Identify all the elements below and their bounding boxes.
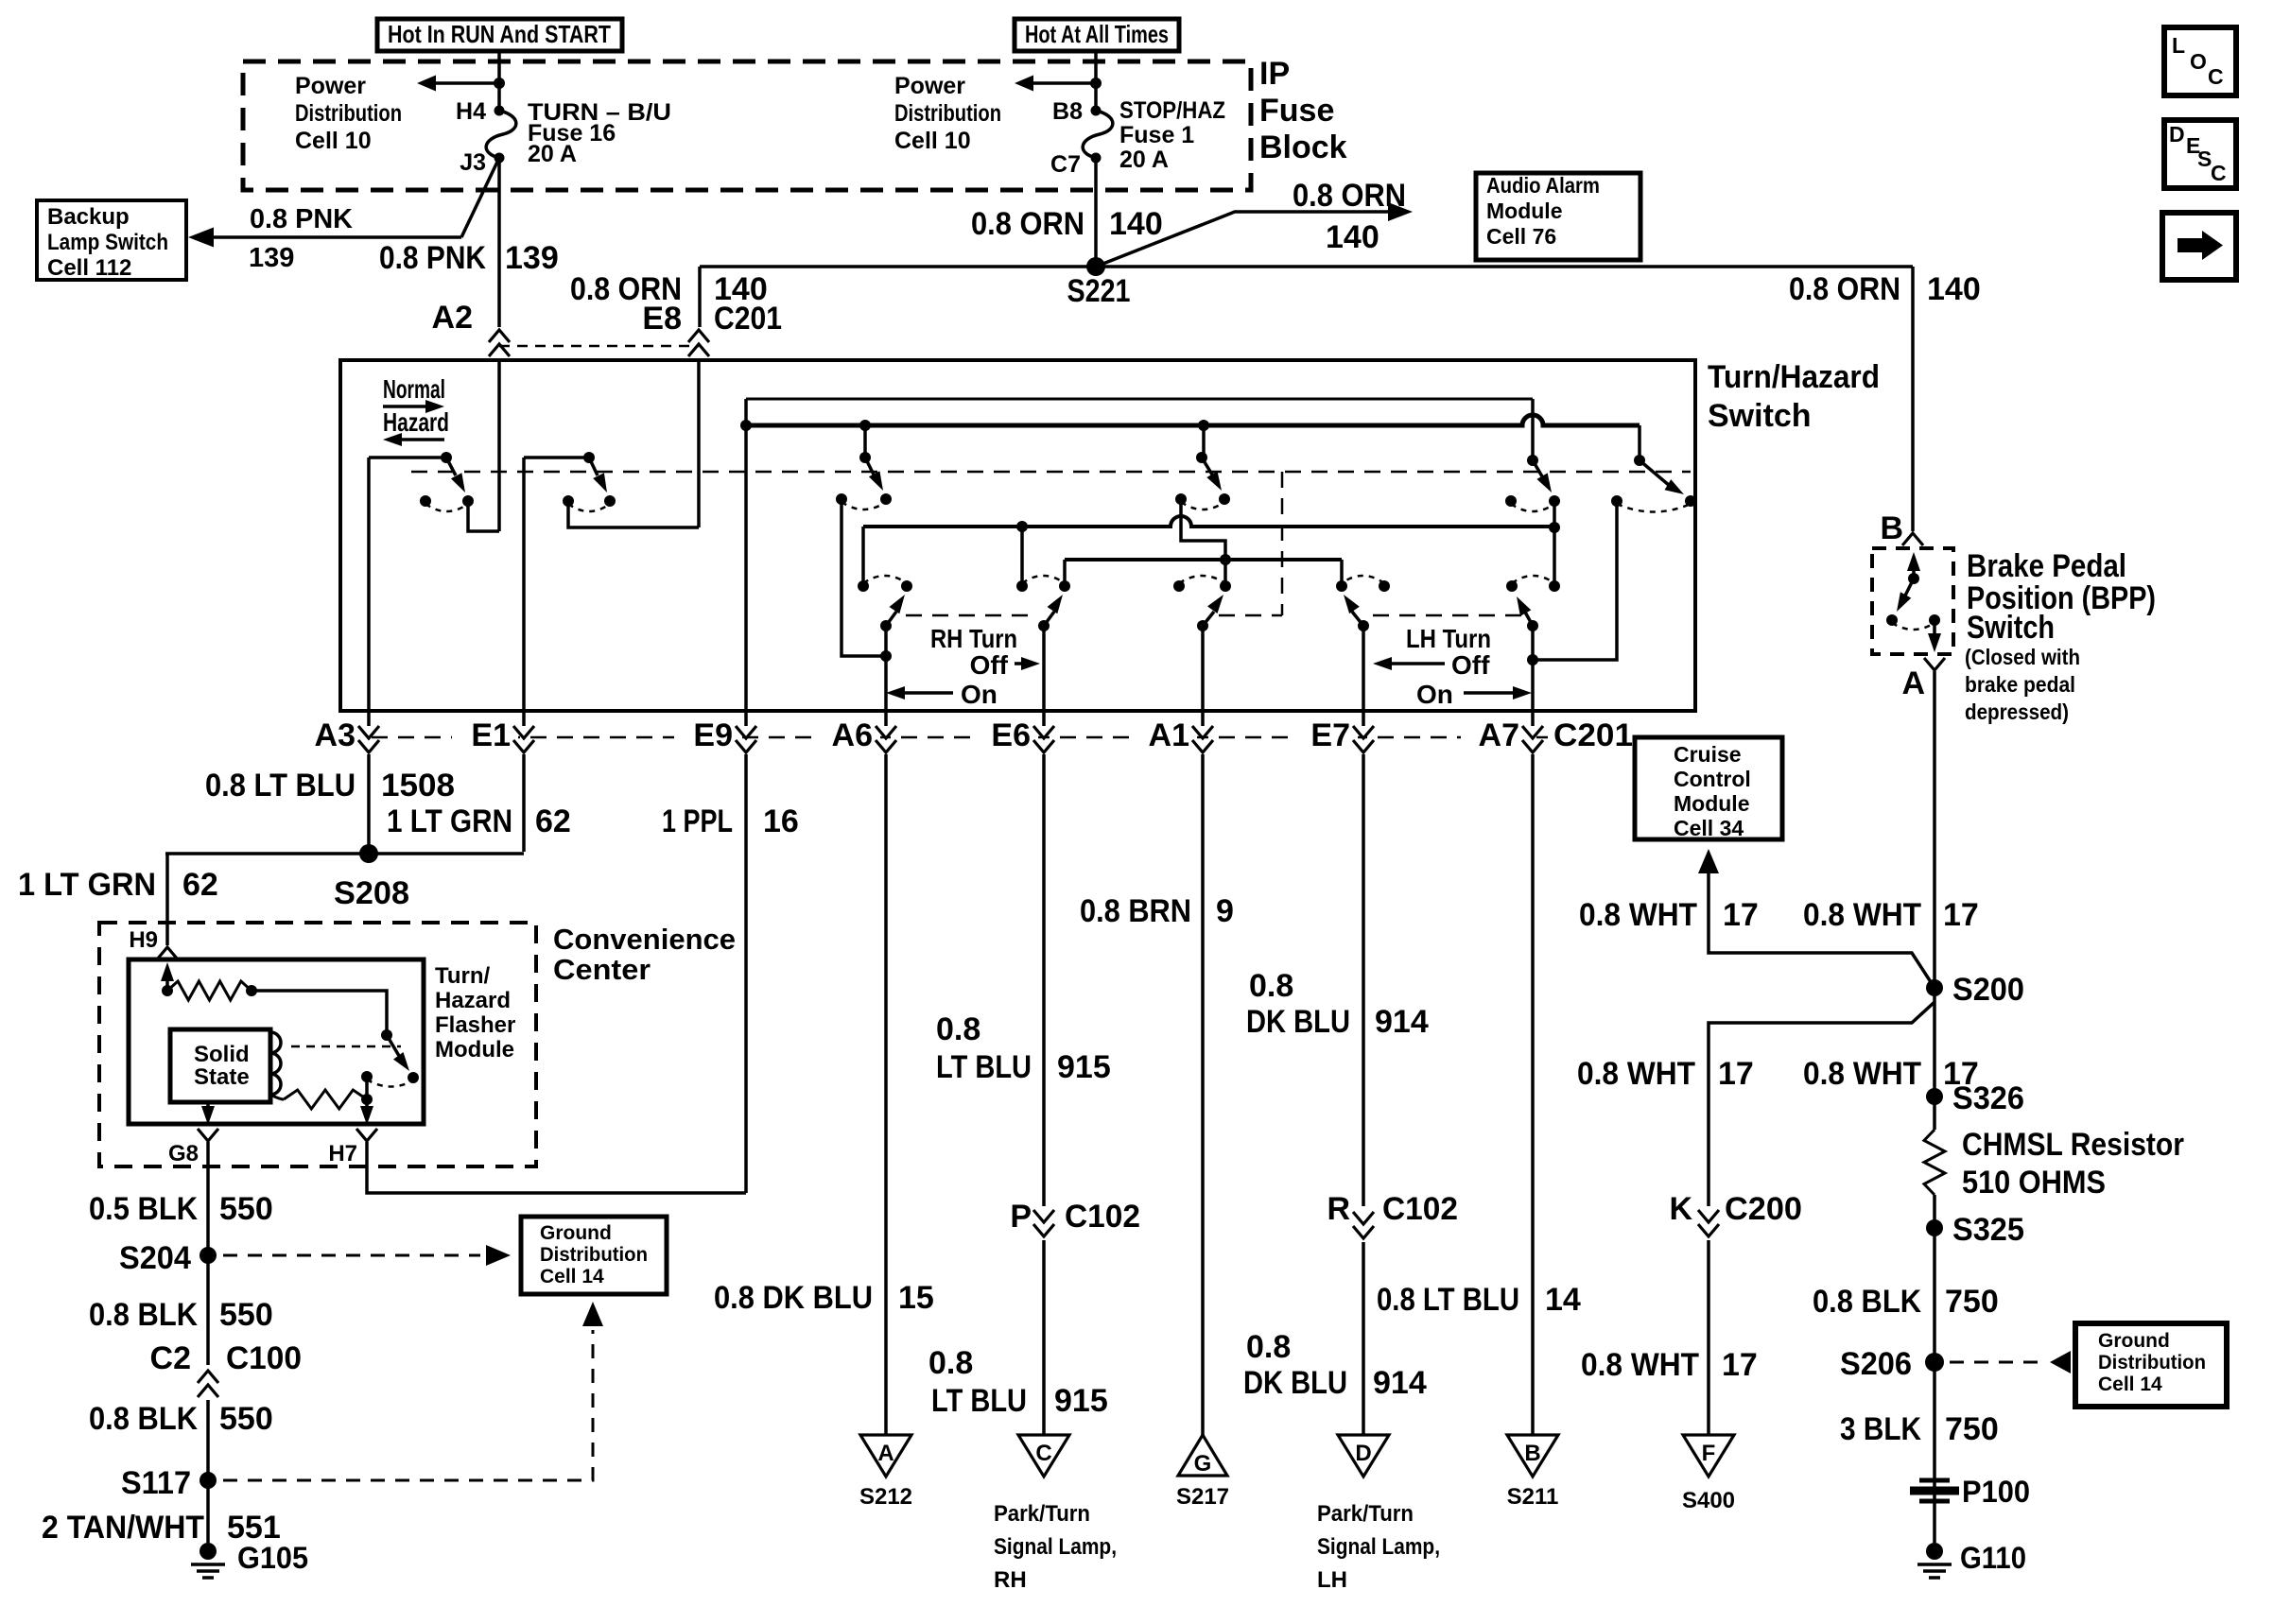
svg-text:P: P (1010, 1199, 1032, 1235)
svg-text:Brake Pedal: Brake Pedal (1967, 548, 2126, 584)
svg-text:550: 550 (219, 1401, 273, 1437)
feed stub to U3 pivot (863, 425, 867, 458)
svg-text:0.8 ORN: 0.8 ORN (1293, 178, 1406, 214)
wire K to S400 triangle (1707, 1240, 1710, 1435)
connector triangle F (S400) (1683, 1435, 1734, 1477)
svg-text:S117: S117 (121, 1465, 191, 1501)
svg-text:F: F (1702, 1441, 1716, 1466)
svg-text:LT BLU: LT BLU (931, 1383, 1027, 1419)
wire 0.8 ORN 140 from C7 to S221 (1094, 158, 1098, 267)
wire A6 riser inside box (884, 656, 888, 711)
svg-text:Switch: Switch (1967, 610, 2055, 646)
svg-text:State: State (194, 1064, 250, 1090)
svg-text:S325: S325 (1952, 1212, 2024, 1248)
svg-text:Signal Lamp,: Signal Lamp, (994, 1534, 1117, 1560)
svg-text:S204: S204 (119, 1240, 191, 1276)
svg-text:Turn/Hazard: Turn/Hazard (1708, 359, 1880, 395)
switch contact U5 (bus1 pivot) (1527, 455, 1538, 466)
bus2 corner down to U6 pivot (1638, 425, 1641, 460)
svg-text:0.8 PNK: 0.8 PNK (250, 204, 353, 234)
switch contact L5 (A7, arm open) (1527, 620, 1538, 631)
IP Fuse Block dashed box (243, 61, 1251, 190)
splice S117 dot (200, 1472, 217, 1489)
connector C201 dashed line below switch (345, 736, 1565, 739)
svg-text:14: 14 (1545, 1282, 1581, 1318)
svg-text:Flasher: Flasher (435, 1012, 515, 1038)
LOC reference box (2164, 27, 2236, 95)
wire E9 riser inside box (744, 399, 748, 711)
svg-text:139: 139 (249, 243, 294, 273)
connector triangle G (S217) pointing up (1178, 1435, 1227, 1476)
svg-text:Module: Module (1674, 791, 1750, 816)
svg-text:A: A (877, 1441, 894, 1466)
svg-text:0.8 DK BLU: 0.8 DK BLU (714, 1280, 873, 1316)
svg-text:17: 17 (1718, 1056, 1754, 1092)
junction dot right of R1 (246, 985, 257, 996)
svg-text:915: 915 (1054, 1383, 1108, 1419)
Solid State box (170, 1029, 270, 1102)
svg-text:1 LT GRN: 1 LT GRN (18, 867, 156, 903)
svg-text:Switch: Switch (1708, 398, 1812, 434)
svg-text:Distribution: Distribution (2098, 1352, 2206, 1373)
svg-text:On: On (961, 680, 998, 709)
svg-text:B8: B8 (1052, 98, 1083, 125)
wire S400 branch from S200 (1709, 1002, 1935, 1206)
connector chevrons and pin label E1 (452, 720, 518, 758)
flasher junction dot at resistor R1 (162, 985, 173, 996)
svg-text:Signal Lamp,: Signal Lamp, (1317, 1534, 1440, 1560)
feed stub to U4 pivot (1202, 425, 1206, 458)
svg-text:1 PPL: 1 PPL (662, 803, 733, 839)
pass-through grommet P100 (1919, 1478, 1950, 1483)
wire below CHMSL resistor (1933, 1195, 1936, 1543)
connector chevron A (1924, 658, 1945, 670)
svg-text:20 A: 20 A (1119, 147, 1169, 173)
svg-text:Cell 10: Cell 10 (894, 128, 971, 154)
svg-text:Center: Center (553, 953, 651, 986)
wire S208 horizontal (165, 852, 524, 855)
svg-text:LT BLU: LT BLU (936, 1049, 1032, 1085)
wire E7 drop lower (1362, 1242, 1365, 1435)
wire 0.8 ORN branch to Audio Alarm Module (1096, 212, 1397, 267)
svg-text:750: 750 (1945, 1284, 1999, 1320)
flasher relay coil bumps (270, 1032, 281, 1095)
bus4 right corner to L4 contact (1340, 560, 1344, 586)
svg-text:Distribution: Distribution (540, 1244, 648, 1266)
svg-text:Cell 10: Cell 10 (295, 128, 372, 154)
svg-text:depressed): depressed) (1965, 700, 2069, 724)
svg-text:C: C (1035, 1441, 1051, 1466)
wire 0.8 PNK diagonal from J3 (461, 158, 499, 237)
svg-text:Hot At All Times: Hot At All Times (1025, 20, 1169, 48)
svg-text:G8: G8 (168, 1141, 199, 1166)
wire U1 contact to A2 link (468, 501, 499, 531)
svg-text:E8: E8 (642, 301, 682, 337)
Turn/Hazard Flasher Module box (129, 959, 424, 1124)
svg-text:LH: LH (1317, 1567, 1347, 1593)
svg-text:C: C (2208, 64, 2224, 89)
svg-text:Audio Alarm: Audio Alarm (1486, 173, 1600, 198)
svg-text:0.8: 0.8 (1249, 968, 1293, 1004)
svg-text:A6: A6 (832, 717, 873, 753)
svg-text:Off: Off (1451, 650, 1490, 680)
svg-text:0.8 ORN: 0.8 ORN (971, 206, 1084, 242)
svg-text:H4: H4 (456, 98, 486, 125)
svg-text:Ground: Ground (540, 1222, 612, 1244)
wire below C100 (206, 1400, 210, 1543)
svg-text:139: 139 (505, 240, 559, 276)
fuse 1 element (squiggle) (1083, 111, 1113, 158)
svg-text:C2: C2 (150, 1340, 191, 1376)
Turn/Hazard Switch box (340, 360, 1695, 711)
svg-text:B: B (1524, 1441, 1540, 1466)
svg-text:0.8 WHT: 0.8 WHT (1581, 1347, 1699, 1383)
svg-text:CHMSL Resistor: CHMSL Resistor (1962, 1127, 2184, 1163)
wire G8 ground column (206, 1142, 210, 1365)
svg-text:Hot In RUN And START: Hot In RUN And START (388, 20, 611, 48)
svg-text:E1: E1 (471, 717, 511, 753)
svg-text:20 A: 20 A (528, 141, 577, 167)
svg-text:Cell 14: Cell 14 (2098, 1373, 2162, 1395)
Audio Alarm Module box (1476, 173, 1640, 260)
connector triangle A (S212) (860, 1435, 911, 1477)
svg-text:IP: IP (1259, 56, 1290, 92)
svg-text:Solid: Solid (194, 1042, 250, 1067)
svg-text:A2: A2 (432, 300, 473, 336)
dashed connector line C201 between A2 and E8 (499, 345, 699, 348)
wire E1 down and over to S208 (522, 760, 526, 852)
connector triangle B (S211) (1507, 1435, 1558, 1477)
connector chevrons and pin label E7 (1292, 720, 1358, 758)
flasher dashed arc (367, 1080, 413, 1087)
arrow to Power Distribution Cell 10 (right) (1029, 81, 1096, 85)
page-continue arrow box (2162, 213, 2236, 280)
bus4 left corner to L2 contact (1063, 560, 1067, 586)
svg-text:C102: C102 (1065, 1199, 1140, 1235)
bus3 corner down to L1 left dot (861, 527, 865, 586)
wire H7 down and over to E9 drop (367, 1142, 746, 1193)
svg-text:Power: Power (894, 73, 965, 99)
svg-text:A: A (1901, 665, 1925, 701)
svg-text:1508: 1508 (381, 768, 455, 803)
splice S221 bus wire (700, 265, 1913, 268)
svg-text:H9: H9 (129, 927, 158, 953)
wire A1 riser inside box (1201, 626, 1205, 711)
wire U2 pivot to E1 riser (524, 456, 589, 459)
wire 0.8 ORN 140 right riser to BPP switch (1911, 267, 1915, 531)
upper mechanical dashed line (411, 471, 1691, 474)
svg-text:Distribution: Distribution (295, 100, 402, 127)
svg-text:G110: G110 (1960, 1541, 2026, 1575)
svg-text:S326: S326 (1952, 1080, 2024, 1116)
svg-text:915: 915 (1057, 1049, 1111, 1085)
svg-text:L: L (2172, 33, 2185, 58)
Ground Distribution Cell 14 box (left) (521, 1217, 667, 1294)
ground G105 (200, 1543, 217, 1560)
svg-text:Cell 14: Cell 14 (540, 1266, 604, 1287)
coil mechanical dashed link (291, 1045, 401, 1048)
wire A6 drop (884, 760, 888, 1435)
svg-text:S217: S217 (1176, 1484, 1229, 1510)
connector chevrons and pin label A6 (814, 720, 880, 758)
wire L5 pivot down to A7 junction (1531, 626, 1535, 660)
wire E1 riser inside box (522, 458, 526, 711)
wire U5 contact chain down to lower row (1553, 501, 1556, 586)
wire A2 into switch box (497, 359, 501, 531)
DESC reference box (2164, 120, 2236, 188)
coil to R2 link (270, 1095, 284, 1099)
wire E6 riser inside box (1042, 626, 1046, 711)
wire A3 down to S208 (367, 760, 371, 854)
svg-text:140: 140 (1109, 206, 1163, 242)
svg-text:0.8 BLK: 0.8 BLK (89, 1297, 198, 1333)
flasher input arrow up inside module (165, 974, 169, 991)
wire A1 drop (1201, 760, 1205, 1435)
wire E8 into switch box down to U2 contact link (697, 359, 701, 527)
svg-text:Module: Module (1486, 199, 1563, 223)
svg-text:brake pedal: brake pedal (1965, 672, 2075, 697)
svg-text:S200: S200 (1952, 972, 2024, 1008)
svg-text:J3: J3 (460, 149, 486, 176)
wire U4 left contact jog to bus4 (1181, 499, 1225, 586)
wire U2 left contact to E8 link (568, 501, 699, 527)
svg-text:914: 914 (1373, 1365, 1427, 1401)
dashed reference to Ground Distribution with arrow (223, 1254, 480, 1257)
svg-text:Module: Module (435, 1037, 514, 1063)
svg-text:Park/Turn: Park/Turn (1317, 1501, 1414, 1527)
svg-text:0.8 LT BLU: 0.8 LT BLU (1377, 1282, 1519, 1318)
BPP dashed arc (1892, 623, 1935, 630)
bus wire 2 (feed bus from E9) with hop over U5 riser (746, 415, 1640, 425)
svg-text:A1: A1 (1149, 717, 1189, 753)
wire from Hot At All Times box to fuse 1 (1094, 51, 1098, 111)
junction dot at power distribution tap (494, 78, 505, 89)
svg-text:Off: Off (970, 650, 1009, 680)
BPP arm pivot dot and up arrow (1912, 563, 1916, 579)
svg-text:Convenience: Convenience (553, 923, 736, 956)
Convenience Center dashed box (99, 923, 536, 1166)
bus3 stub to L2 left dot (1020, 527, 1024, 586)
svg-text:Backup: Backup (47, 204, 130, 230)
wire E8 riser from S221 bus (698, 267, 702, 327)
svg-text:550: 550 (219, 1297, 273, 1333)
switch contact U3 (A6 branch) (859, 452, 871, 463)
wire U3 left contact down to A6 junction (842, 499, 886, 656)
splice S206 dot (1925, 1353, 1944, 1372)
splice S326 dot (1926, 1088, 1943, 1105)
svg-text:16: 16 (763, 803, 799, 839)
flasher contact arm with arrow (387, 1035, 402, 1061)
svg-text:0.8 BLK: 0.8 BLK (1813, 1284, 1921, 1320)
connector chevron H9 (157, 947, 178, 959)
wire A7 drop (1531, 760, 1535, 1435)
svg-text:STOP/HAZ: STOP/HAZ (1119, 97, 1225, 124)
splice S325 dot (1926, 1219, 1943, 1236)
header box: Hot In RUN And START (377, 19, 622, 51)
bus1 corner down to U5 pivot (1531, 399, 1535, 460)
svg-text:DK BLU: DK BLU (1246, 1004, 1350, 1040)
mechanical dashed link vertical (1281, 472, 1284, 615)
BPP left contact dot (1886, 614, 1898, 626)
svg-text:750: 750 (1945, 1411, 1999, 1447)
svg-text:C201: C201 (714, 301, 782, 337)
svg-text:62: 62 (535, 803, 571, 839)
svg-text:0.8 LT BLU: 0.8 LT BLU (205, 768, 356, 803)
svg-text:O: O (2190, 49, 2207, 74)
switch contact L1 (RH turn, A6) (880, 620, 892, 631)
svg-text:62: 62 (182, 867, 218, 903)
switch contact L4 (E7, mirrored) (1358, 620, 1369, 631)
svg-text:S212: S212 (859, 1484, 912, 1510)
svg-text:Cruise: Cruise (1674, 742, 1742, 767)
flasher contact pivot dot (381, 1029, 392, 1041)
svg-text:Hazard: Hazard (383, 407, 449, 437)
svg-text:Distribution: Distribution (894, 100, 1001, 127)
svg-text:S208: S208 (334, 875, 409, 911)
connector chevrons and pin label E9 (674, 720, 740, 758)
svg-text:D: D (1355, 1441, 1371, 1466)
splice S208 dot (359, 844, 378, 863)
flasher fixed dot (361, 1071, 373, 1082)
CHMSL resistor zigzag (1924, 1130, 1945, 1195)
svg-text:17: 17 (1723, 897, 1759, 933)
svg-text:Block: Block (1259, 130, 1347, 165)
svg-text:C201: C201 (1553, 717, 1633, 753)
svg-text:550: 550 (219, 1191, 273, 1227)
flasher contact dot (408, 1072, 419, 1083)
svg-text:Cell 76: Cell 76 (1486, 224, 1556, 249)
BPP arm to left contact (1902, 579, 1914, 601)
svg-text:15: 15 (898, 1280, 934, 1316)
svg-text:DK BLU: DK BLU (1243, 1365, 1347, 1401)
svg-text:17: 17 (1943, 897, 1979, 933)
header box: Hot At All Times (1015, 19, 1179, 51)
svg-text:Normal: Normal (383, 374, 445, 404)
connector chevron H7 (356, 1129, 377, 1141)
connector chevrons at E8 (688, 330, 709, 342)
svg-text:0.8 WHT: 0.8 WHT (1579, 897, 1697, 933)
wire U6 left contact down to A7 junction (1533, 501, 1617, 660)
svg-text:0.5 BLK: 0.5 BLK (89, 1191, 198, 1227)
splice S200 dot (1926, 979, 1943, 996)
svg-text:C102: C102 (1382, 1191, 1458, 1227)
connector chevron G8 (198, 1129, 218, 1141)
svg-text:140: 140 (1326, 219, 1379, 255)
svg-text:Cell 112: Cell 112 (47, 255, 131, 281)
svg-text:Ground: Ground (2098, 1330, 2170, 1352)
bus3 end dot at U5 chain (1549, 522, 1560, 533)
junction dot E9 on bus 2 (740, 420, 752, 431)
wire E7 riser inside box (1362, 626, 1365, 711)
svg-text:(Closed with: (Closed with (1965, 645, 2080, 669)
splice S204 dot (200, 1247, 217, 1264)
svg-text:Hazard: Hazard (435, 988, 511, 1013)
switch contact L3 (A1) (1197, 620, 1208, 631)
wire 0.8 PNK to Backup Lamp Switch with arrowhead (210, 235, 461, 239)
svg-text:140: 140 (1927, 271, 1981, 307)
svg-text:D: D (2169, 122, 2185, 147)
svg-text:C200: C200 (1725, 1191, 1802, 1227)
svg-text:A3: A3 (315, 717, 356, 753)
svg-text:B: B (1880, 510, 1903, 546)
bus wire 3 with hop over U4 link (863, 516, 1554, 527)
wire A3 riser inside box (367, 458, 371, 711)
wire BPP A down to S200 (1933, 671, 1936, 1130)
svg-text:510 OHMS: 510 OHMS (1962, 1165, 2106, 1201)
dashed reference S117 to Ground Distribution (223, 1330, 593, 1480)
junction dot A6 (880, 650, 892, 662)
solid state output arrow down (206, 1102, 210, 1114)
arrow to Power Distribution Cell 10 (left) (431, 81, 499, 85)
connector chevrons and pin label A7 (1461, 720, 1527, 758)
splice S221 dot (1086, 257, 1105, 276)
svg-text:S400: S400 (1682, 1488, 1735, 1513)
svg-text:E7: E7 (1310, 717, 1350, 753)
svg-text:9: 9 (1216, 893, 1234, 929)
label C201 at connector row (1548, 720, 1638, 758)
connector chevrons and pin label A3 (297, 720, 363, 758)
junction dot A7 (1527, 654, 1538, 665)
switch contact L2 (E6) (1038, 620, 1050, 631)
svg-text:C100: C100 (226, 1340, 302, 1376)
svg-text:E6: E6 (991, 717, 1031, 753)
svg-text:914: 914 (1375, 1004, 1429, 1040)
svg-text:0.8 WHT: 0.8 WHT (1803, 1056, 1921, 1092)
wire from R1 to flasher contact pivot (252, 991, 387, 1035)
BPP right contact dot and down arrow (1929, 614, 1940, 626)
Ground Distribution Cell 14 box (right) (2075, 1323, 2227, 1407)
svg-text:0.8 BRN: 0.8 BRN (1080, 893, 1191, 929)
connector chevrons and pin label A1 (1131, 720, 1197, 758)
svg-text:0.8 ORN: 0.8 ORN (1789, 271, 1900, 307)
flasher resistor R1 (167, 981, 252, 1000)
switch contact U4 (A1 branch) (1196, 452, 1207, 463)
ground G110 (1926, 1543, 1943, 1560)
switch contact U2 (E1 pivot) (583, 452, 595, 463)
svg-text:R: R (1327, 1191, 1350, 1227)
svg-text:H7: H7 (328, 1141, 357, 1166)
bus4 junction dot to U4 link (1220, 554, 1231, 565)
Brake Pedal Position switch dashed box (1872, 548, 1953, 654)
svg-text:C: C (2211, 161, 2227, 185)
connector triangle C (Park/Turn Signal Lamp RH) (1018, 1435, 1069, 1477)
svg-text:Fuse 1: Fuse 1 (1119, 122, 1194, 148)
wire A7 riser inside box (1531, 660, 1535, 711)
svg-text:Turn/: Turn/ (435, 963, 491, 989)
dashed reference S206 to Ground Distribution (1950, 1361, 2042, 1364)
svg-text:C7: C7 (1050, 151, 1081, 178)
svg-text:Park/Turn: Park/Turn (994, 1501, 1090, 1527)
junction dot at power distribution tap (right) (1090, 78, 1102, 89)
wire E6 drop lower (1042, 1240, 1046, 1435)
svg-text:P100: P100 (1962, 1475, 2030, 1509)
svg-text:0.8 BLK: 0.8 BLK (89, 1401, 198, 1437)
wire E9 drop from connector row to H7 link (744, 760, 748, 1193)
svg-text:On: On (1416, 680, 1453, 709)
switch contact U1 (Normal/Hazard, A3 pivot) (441, 452, 452, 463)
wire E7 drop upper (1362, 760, 1365, 1206)
svg-text:A7: A7 (1479, 717, 1519, 753)
svg-text:3 BLK: 3 BLK (1840, 1411, 1921, 1447)
wire drop to H9 (165, 854, 169, 945)
connector chevrons and pin label E6 (972, 720, 1038, 758)
arrow up into Cruise Control Module (1698, 849, 1719, 873)
svg-text:0.8 PNK: 0.8 PNK (379, 240, 486, 276)
flasher output arrow down (H7) (365, 1099, 369, 1114)
svg-text:G105: G105 (237, 1541, 308, 1575)
wire from Hot In RUN box to fuse 16 (497, 51, 501, 111)
connector chevron B (1902, 533, 1923, 545)
